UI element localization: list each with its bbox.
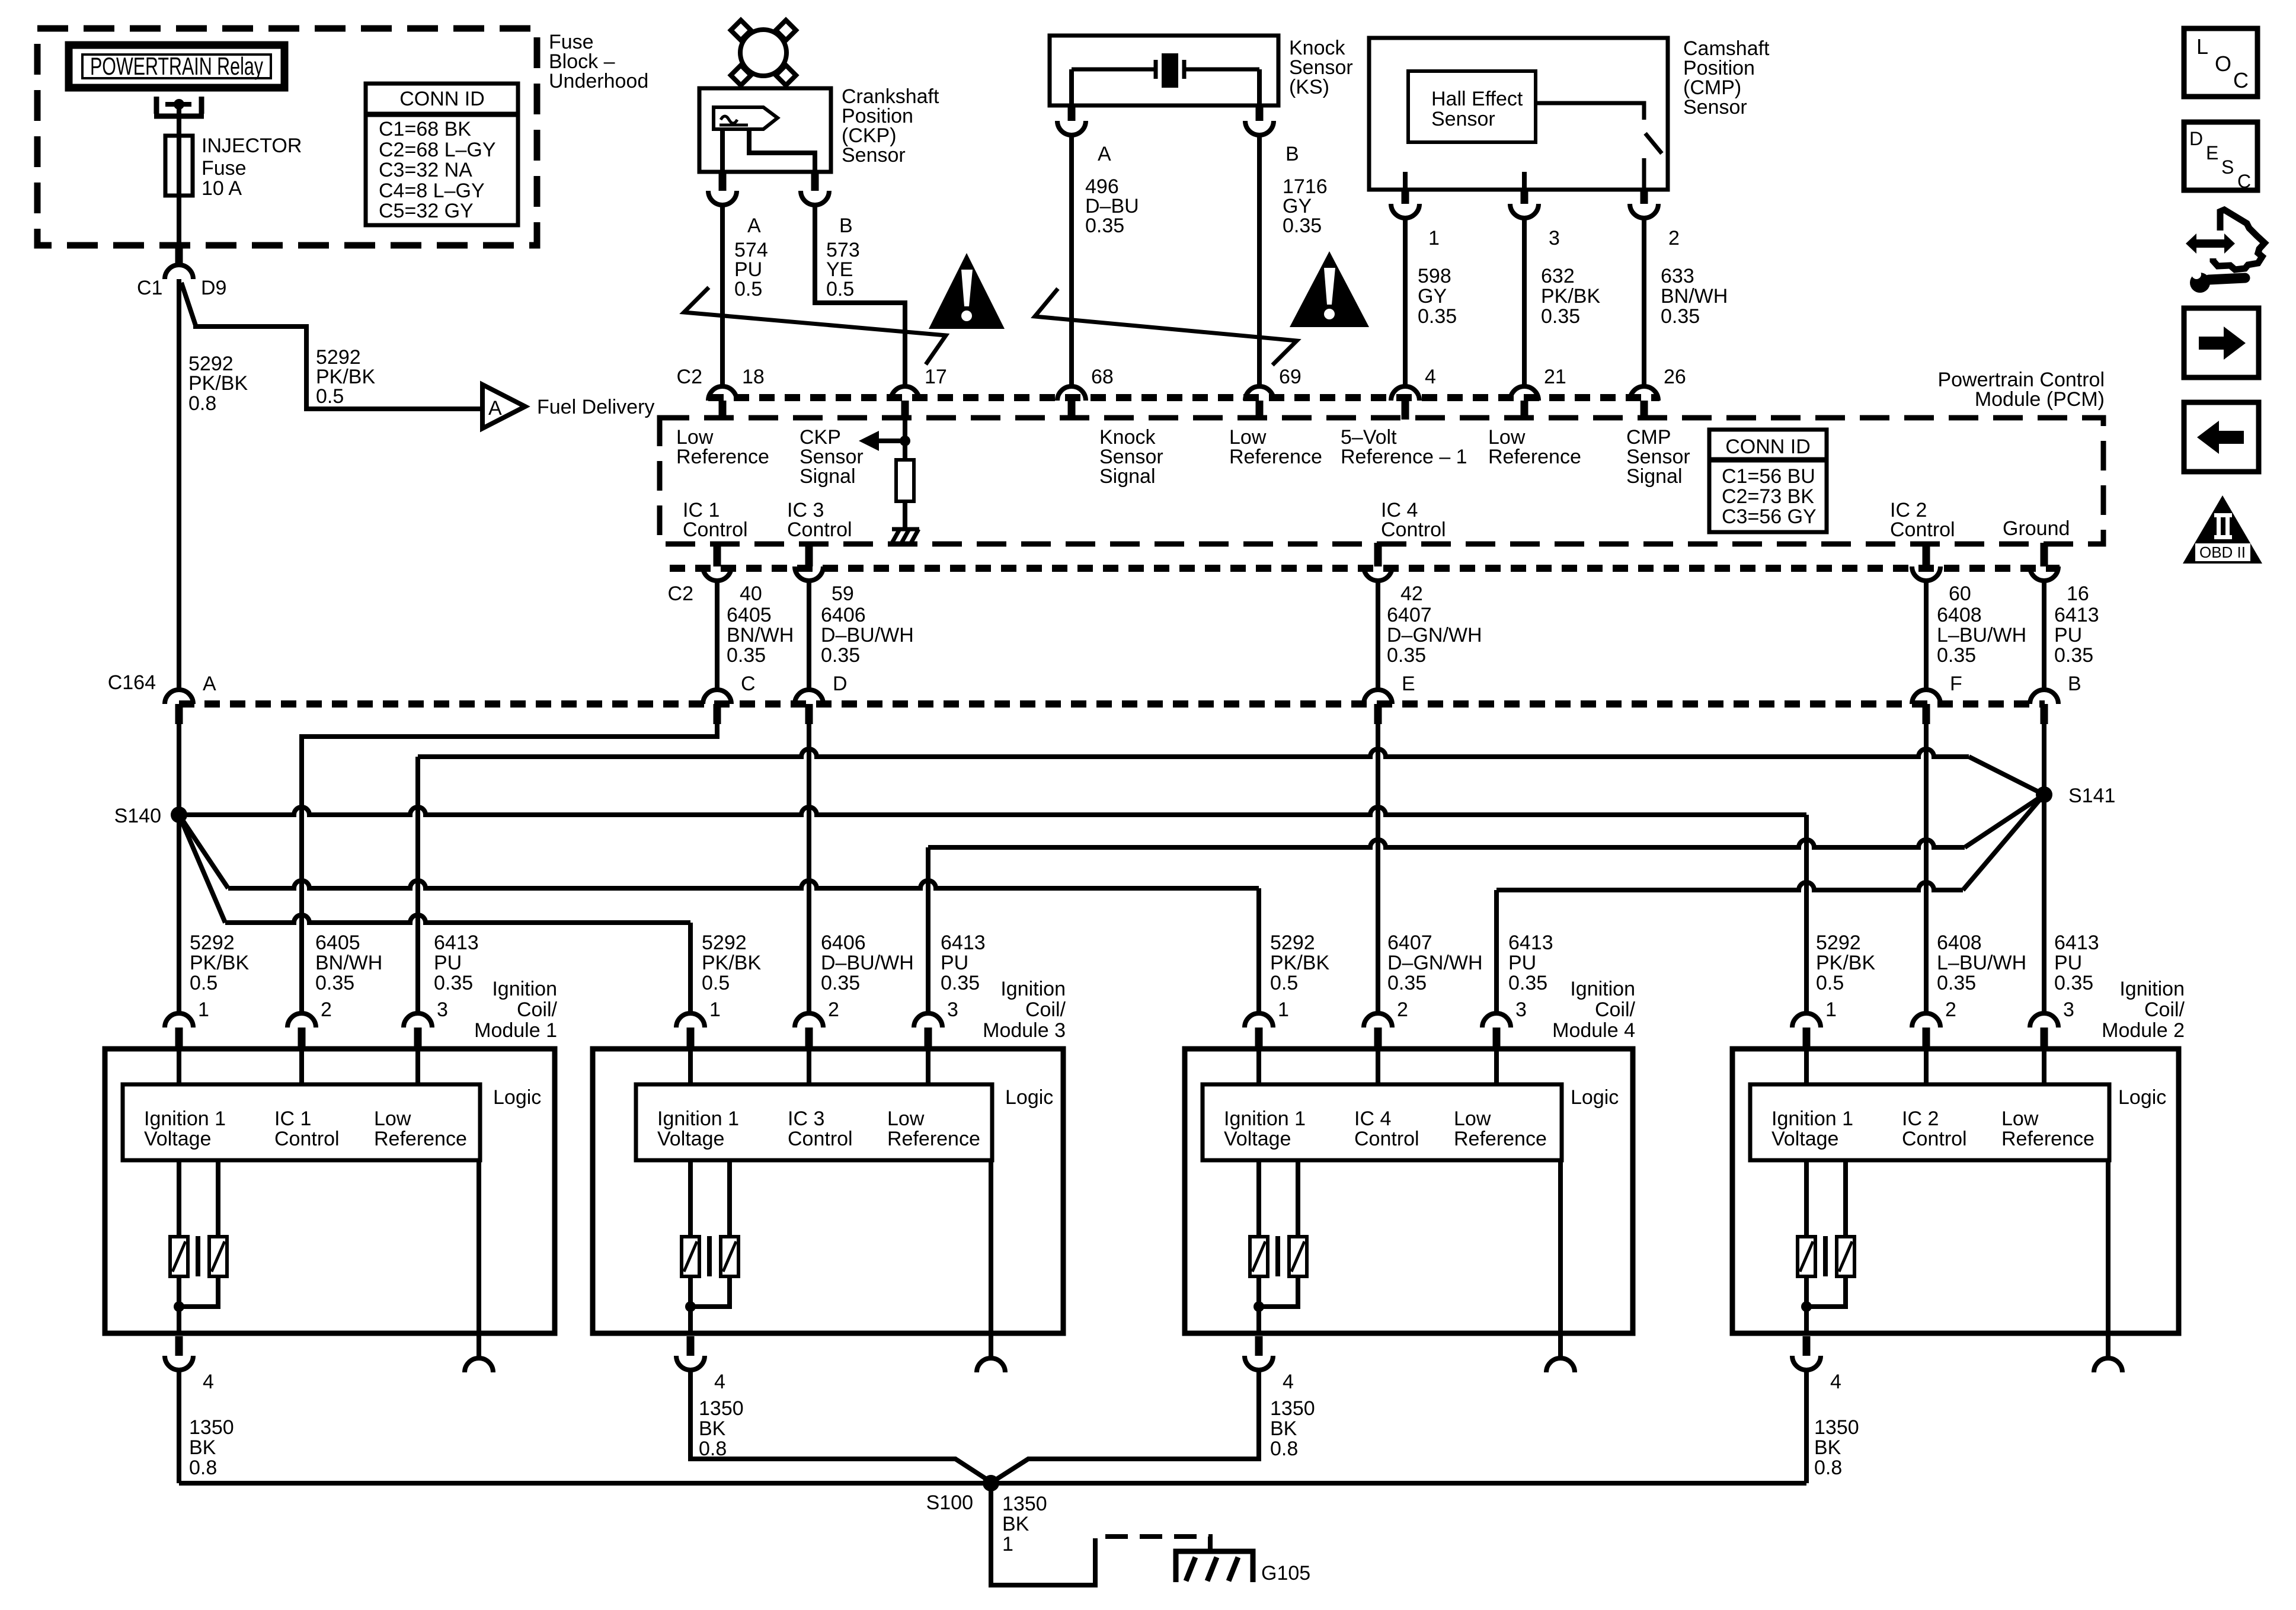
svg-text:Fuse: Fuse: [202, 157, 247, 180]
svg-text:0.35: 0.35: [1508, 972, 1547, 994]
svg-text:0.35: 0.35: [821, 644, 860, 667]
svg-text:C: C: [2237, 171, 2251, 192]
svg-text:Sensor: Sensor: [1431, 108, 1495, 130]
module 3 coil junction node: [685, 1301, 696, 1312]
svg-text:A: A: [1098, 143, 1111, 165]
module 3 pin 2 connector: [795, 1013, 823, 1028]
svg-text:Module 2: Module 2: [2102, 1019, 2185, 1042]
svg-text:C3=56 GY: C3=56 GY: [1722, 505, 1817, 528]
module 2 low reference wire: [2106, 1160, 2110, 1333]
module 1 low reference pin (unconnected): [465, 1358, 493, 1372]
module 1 coil core: [196, 1236, 200, 1276]
module 3 wire secondary return: [690, 1276, 730, 1307]
relay K1 POWERTRAIN Relay box: [69, 45, 284, 88]
svg-text:E: E: [2206, 142, 2218, 164]
module 3 pin 4 connector: [676, 1356, 705, 1370]
svg-text:BN/WH: BN/WH: [1661, 285, 1728, 308]
svg-text:0.35: 0.35: [1085, 215, 1124, 237]
connector C2 pin 42: [1364, 566, 1392, 581]
svg-text:6407: 6407: [1387, 604, 1432, 626]
wire 6408 pin60 to C164-F: [1924, 581, 1929, 690]
wire 6413 branch S141 to module3 pin3: [928, 840, 1965, 847]
arrow CKP sensor signal: [878, 438, 905, 443]
connector C2 pin 59 stub: [805, 543, 813, 566]
fuse block - underhood dashed box: [37, 28, 537, 245]
module 2 coil primary winding: [1798, 1237, 1815, 1276]
svg-text:0.35: 0.35: [1418, 305, 1457, 328]
svg-text:Ground: Ground: [2003, 517, 2070, 540]
module 1 coil junction node: [174, 1301, 184, 1312]
svg-text:18: 18: [742, 366, 765, 388]
module 2 pin 4 connector: [1792, 1356, 1821, 1370]
svg-text:BK: BK: [189, 1436, 216, 1459]
fuse block CONN ID table: [366, 84, 518, 225]
twisted pair symbol KS wires: [1035, 289, 1297, 365]
svg-text:0.5: 0.5: [702, 972, 730, 994]
hall effect sensor box: [1408, 71, 1536, 142]
module 4 low reference wire: [1558, 1160, 1563, 1333]
svg-text:IC 4: IC 4: [1354, 1108, 1391, 1130]
wire 1350 bus horizontal: [179, 1481, 1806, 1486]
svg-text:0.35: 0.35: [2054, 972, 2093, 994]
wire 633 BN/WH 0.35: [1642, 218, 1646, 386]
svg-text:Reference: Reference: [1488, 446, 1581, 468]
wire relay to fuse: [177, 107, 181, 136]
twisted pair symbol CKP wires: [684, 287, 946, 364]
module 2 wire logic to coil primary: [1804, 1160, 1809, 1237]
module 3 wire logic to coil primary: [688, 1160, 693, 1237]
CKP sensor element symbol: [714, 107, 778, 129]
module 2 wire secondary return: [1806, 1276, 1846, 1307]
svg-text:1: 1: [198, 998, 209, 1021]
wire 632 PK/BK 0.35: [1522, 218, 1527, 386]
icon forward arrow box: [2184, 308, 2259, 377]
svg-text:Control: Control: [274, 1128, 340, 1150]
module 1 wire secondary return: [179, 1276, 218, 1307]
svg-text:C2=68 L–GY: C2=68 L–GY: [379, 139, 496, 161]
svg-text:C2: C2: [668, 582, 693, 605]
CKP pin B stub: [811, 171, 819, 191]
connector C1 pin D9 stub: [175, 248, 183, 265]
svg-text:0.35: 0.35: [1937, 644, 1976, 667]
connector C164 pin C: [703, 690, 731, 704]
svg-text:10 A: 10 A: [202, 177, 242, 200]
wire 5292 PK/BK 0.8 main vertical: [177, 279, 181, 690]
svg-text:Low: Low: [2001, 1108, 2039, 1130]
svg-text:2: 2: [828, 998, 839, 1021]
svg-text:0.35: 0.35: [1387, 644, 1426, 667]
wire 6407 E to module4 pin2: [1376, 724, 1380, 1013]
CMP pin 1 wire internal: [1403, 172, 1408, 190]
warning triangle 1: [929, 253, 1005, 329]
svg-text:0.35: 0.35: [315, 972, 354, 994]
module 4 coil primary winding: [1250, 1237, 1268, 1276]
svg-text:Control: Control: [1890, 518, 1955, 541]
svg-text:BK: BK: [1270, 1417, 1297, 1440]
svg-text:C1=68 BK: C1=68 BK: [379, 118, 471, 140]
svg-text:Logic: Logic: [1571, 1086, 1619, 1109]
svg-text:3: 3: [1549, 227, 1560, 249]
svg-text:PK/BK: PK/BK: [1270, 952, 1329, 974]
svg-text:Signal: Signal: [1099, 465, 1156, 488]
svg-text:6413: 6413: [2054, 932, 2099, 954]
svg-text:Low: Low: [1454, 1108, 1491, 1130]
wire 1350 module3 to S100: [690, 1370, 991, 1482]
svg-text:GY: GY: [1418, 285, 1447, 308]
splice S141: [2036, 786, 2052, 803]
icon OBD II triangle: [2183, 495, 2262, 564]
svg-text:IC 2: IC 2: [1902, 1108, 1939, 1130]
connector C164 pin A: [165, 690, 193, 704]
KS piezo element symbol: [1072, 68, 1156, 72]
CMP pin 1 stub: [1402, 188, 1409, 204]
svg-text:Coil/: Coil/: [1595, 998, 1636, 1021]
module 3 coil secondary winding: [721, 1237, 738, 1276]
module 3 low reference pin (unconnected): [977, 1358, 1005, 1372]
svg-text:0.5: 0.5: [826, 278, 854, 300]
svg-text:PK/BK: PK/BK: [1541, 285, 1600, 308]
connector C2 pin 18: [708, 386, 737, 401]
wire 1716 GY 0.35: [1257, 135, 1262, 386]
wire 5292 branch S140 to module4 pin1: [179, 815, 228, 888]
svg-text:D: D: [2189, 128, 2203, 149]
svg-text:Underhood: Underhood: [549, 70, 648, 92]
svg-text:Low: Low: [374, 1108, 411, 1130]
svg-text:L–BU/WH: L–BU/WH: [1937, 624, 2026, 646]
wire CKP pin B internal: [749, 129, 815, 172]
svg-text:0.35: 0.35: [1661, 305, 1700, 328]
svg-text:BK: BK: [699, 1417, 726, 1440]
svg-text:Reference – 1: Reference – 1: [1341, 446, 1467, 468]
svg-text:0.35: 0.35: [1387, 972, 1427, 994]
wire 6406 D to module3 pin2: [807, 724, 811, 1013]
module 1 pin 4 stub: [175, 1336, 183, 1356]
module 4 coil core: [1275, 1236, 1280, 1276]
svg-text:4: 4: [714, 1371, 725, 1393]
module 2 coil junction node: [1801, 1301, 1812, 1312]
svg-text:O: O: [2215, 52, 2231, 76]
wire resistor to ground: [903, 501, 907, 529]
module 2 outer box: [1732, 1049, 2179, 1333]
svg-text:Ignition 1: Ignition 1: [657, 1108, 739, 1130]
svg-text:Voltage: Voltage: [144, 1128, 211, 1150]
wire 6413 branch S141 to module1 pin3: [418, 749, 1969, 757]
icon DESC box: [2184, 122, 2257, 190]
svg-text:6406: 6406: [821, 932, 866, 954]
wire 496 D-BU 0.35: [1069, 135, 1074, 386]
svg-text:Control: Control: [1354, 1128, 1419, 1150]
svg-text:1350: 1350: [1270, 1397, 1315, 1420]
svg-text:Ignition 1: Ignition 1: [1224, 1108, 1306, 1130]
connector C2 pin 60: [1912, 566, 1940, 581]
svg-text:PU: PU: [1508, 952, 1536, 974]
module 1 outer box: [105, 1049, 555, 1333]
connector row C2 (PCM bottom): [670, 565, 2060, 572]
svg-text:3: 3: [2063, 998, 2074, 1021]
connector C2 pin 26: [1630, 386, 1658, 401]
svg-text:IC 1: IC 1: [274, 1108, 311, 1130]
svg-text:68: 68: [1091, 366, 1114, 388]
svg-text:BN/WH: BN/WH: [315, 952, 382, 974]
wire 5292 A column through S140: [177, 724, 181, 1013]
module 1 pin 3 connector: [404, 1013, 432, 1028]
PCM dashed box: [660, 418, 2103, 544]
svg-text:3: 3: [1515, 998, 1527, 1021]
module 2 coil core: [1823, 1236, 1828, 1276]
svg-text:Signal: Signal: [800, 465, 856, 488]
connector C2 pin 16 stub: [2041, 543, 2048, 566]
connector C2 pin 40 stub: [714, 543, 721, 566]
module 1 coil secondary winding: [209, 1237, 227, 1276]
svg-text:6413: 6413: [1508, 932, 1553, 954]
svg-text:1: 1: [1278, 998, 1289, 1021]
svg-text:0.35: 0.35: [727, 644, 766, 667]
svg-text:C3=32 NA: C3=32 NA: [379, 159, 472, 181]
module 4 wire logic to coil secondary: [1296, 1160, 1300, 1237]
wire 574 PU 0.5: [720, 205, 725, 386]
svg-text:B: B: [1285, 143, 1299, 165]
connector C164 pin F: [1912, 690, 1940, 704]
icon back arrow box: [2184, 402, 2259, 472]
icon diagnostic wrench with arrows: [2186, 233, 2235, 254]
svg-text:Ignition: Ignition: [1570, 978, 1635, 1000]
svg-text:6408: 6408: [1937, 932, 1982, 954]
svg-text:Fuel Delivery: Fuel Delivery: [537, 396, 654, 418]
svg-text:D–GN/WH: D–GN/WH: [1387, 952, 1483, 974]
svg-text:Reference: Reference: [2001, 1128, 2094, 1150]
svg-text:40: 40: [740, 582, 762, 605]
module 4 pin 4 connector: [1245, 1356, 1273, 1370]
svg-text:0.35: 0.35: [1283, 215, 1322, 237]
svg-text:D–GN/WH: D–GN/WH: [1387, 624, 1482, 646]
svg-text:PK/BK: PK/BK: [702, 952, 761, 974]
svg-text:Control: Control: [787, 518, 852, 541]
svg-text:L: L: [2196, 34, 2208, 59]
module 1 wire logic to coil secondary: [216, 1160, 220, 1237]
svg-text:0.35: 0.35: [821, 972, 860, 994]
svg-text:BK: BK: [1814, 1436, 1841, 1459]
svg-text:Control: Control: [1381, 518, 1446, 541]
wire 6407 pin42 to C164-E: [1376, 581, 1380, 690]
svg-text:0.5: 0.5: [190, 972, 218, 994]
svg-text:2: 2: [321, 998, 332, 1021]
svg-text:PU: PU: [434, 952, 462, 974]
wire 1350 module2 down: [1804, 1370, 1809, 1483]
connector C2 pin 60 stub: [1923, 543, 1930, 566]
module 1 wire coil to pin 4: [177, 1276, 181, 1333]
module 4 outer box: [1185, 1049, 1633, 1333]
svg-text:C: C: [741, 673, 756, 695]
svg-text:Reference: Reference: [1454, 1128, 1547, 1150]
wire 6405 pin40 to C164-C: [715, 581, 720, 690]
connector C2 pin 21: [1510, 386, 1539, 401]
wire 6406 pin59 to C164-D: [807, 581, 811, 690]
connector C2 pin 40: [703, 566, 731, 581]
svg-text:(KS): (KS): [1289, 76, 1329, 98]
module 1 wire logic to coil primary: [177, 1160, 181, 1237]
resistor R1 (PCM internal): [896, 460, 914, 501]
svg-text:1: 1: [709, 998, 721, 1021]
svg-text:1350: 1350: [189, 1416, 234, 1439]
connector row C2 (PCM top): [708, 394, 1659, 401]
KS pin B connector: [1245, 121, 1274, 135]
module 4 pin 3 connector: [1482, 1013, 1511, 1028]
module 3 pin 1 connector: [676, 1013, 705, 1028]
CMP sensor box: [1369, 38, 1668, 190]
svg-text:Module (PCM): Module (PCM): [1975, 388, 2105, 411]
svg-text:1: 1: [1428, 227, 1440, 249]
module 2 pin 3 connector: [2030, 1013, 2058, 1028]
module 2 logic box: [1750, 1084, 2109, 1160]
svg-text:BK: BK: [1002, 1513, 1029, 1535]
module 4 coil secondary winding: [1289, 1237, 1307, 1276]
wire 6405 C to module1 pin2: [302, 724, 717, 1013]
wire KS pin A internal: [1069, 69, 1074, 105]
svg-text:C2: C2: [677, 366, 702, 388]
module 1 coil primary winding: [170, 1237, 188, 1276]
svg-text:42: 42: [1400, 582, 1423, 605]
svg-text:5292: 5292: [190, 932, 235, 954]
module 2 coil secondary winding: [1837, 1237, 1854, 1276]
svg-text:59: 59: [832, 582, 854, 605]
connector C2 pin 68: [1057, 386, 1086, 401]
svg-text:S100: S100: [926, 1491, 973, 1514]
svg-text:C: C: [2233, 68, 2249, 92]
svg-text:Module 4: Module 4: [1552, 1019, 1635, 1042]
connector C164 pin E: [1364, 690, 1392, 704]
svg-text:D9: D9: [201, 277, 226, 299]
module 2 wire coil to pin 4: [1804, 1276, 1809, 1333]
svg-text:633: 633: [1661, 265, 1694, 287]
svg-text:Low: Low: [887, 1108, 925, 1130]
dashed wire to ground G105: [1095, 1537, 1210, 1561]
connector C164 pin D: [795, 690, 823, 704]
module 4 coil junction node: [1253, 1301, 1264, 1312]
module 4 wire logic to coil primary: [1256, 1160, 1261, 1237]
CKP pin B connector: [801, 191, 829, 205]
svg-text:Voltage: Voltage: [1224, 1128, 1291, 1150]
svg-text:69: 69: [1279, 366, 1302, 388]
svg-text:BN/WH: BN/WH: [727, 624, 794, 646]
connector C2 pin 16: [2030, 566, 2058, 581]
wire 1350 module1 down: [177, 1370, 181, 1483]
svg-text:6413: 6413: [434, 932, 479, 954]
connector C1 pin D9: [165, 265, 193, 279]
wire 5292 branch S140 to module2 pin1: [179, 807, 1806, 815]
fuse F1 INJECTOR 10A: [165, 136, 193, 196]
svg-text:C4=8 L–GY: C4=8 L–GY: [379, 180, 485, 202]
svg-text:Logic: Logic: [1005, 1086, 1053, 1109]
svg-text:PU: PU: [941, 952, 968, 974]
svg-text:1350: 1350: [1814, 1416, 1859, 1439]
module 3 wire logic to coil secondary: [727, 1160, 732, 1237]
svg-text:Ignition: Ignition: [2119, 978, 2185, 1000]
svg-text:1: 1: [1825, 998, 1837, 1021]
node CKP signal junction: [900, 436, 910, 446]
svg-text:C1=56 BU: C1=56 BU: [1722, 465, 1815, 488]
svg-text:6407: 6407: [1387, 932, 1432, 954]
connector C2 pin 4: [1391, 386, 1419, 401]
svg-text:0.35: 0.35: [1937, 972, 1976, 994]
connector row C164: [179, 700, 2045, 708]
svg-text:Logic: Logic: [2118, 1086, 2166, 1109]
svg-text:16: 16: [2067, 582, 2089, 605]
wire 6413 B column through S141: [2042, 724, 2046, 1013]
svg-text:Sensor: Sensor: [1683, 96, 1747, 119]
svg-text:26: 26: [1664, 366, 1686, 388]
svg-text:Ignition 1: Ignition 1: [1771, 1108, 1853, 1130]
module 2 pin 2 connector: [1912, 1013, 1940, 1028]
wire pin 17 internal: [903, 418, 907, 441]
svg-text:0.35: 0.35: [941, 972, 980, 994]
svg-text:POWERTRAIN Relay: POWERTRAIN Relay: [90, 52, 263, 80]
module 3 low reference wire: [989, 1160, 993, 1333]
svg-text:Module 1: Module 1: [474, 1019, 557, 1042]
CMP pin 3 stub: [1521, 188, 1528, 204]
PCM CONN ID table: [1709, 430, 1827, 532]
CKP sensor mounting circle symbol: [740, 30, 786, 76]
CMP pin 3 wire internal: [1522, 172, 1527, 190]
CKP sensor box: [699, 88, 831, 172]
svg-text:Voltage: Voltage: [657, 1128, 724, 1150]
svg-text:5292: 5292: [1270, 932, 1315, 954]
svg-text:D–BU/WH: D–BU/WH: [821, 952, 914, 974]
module 2 low reference pin (unconnected): [2094, 1358, 2122, 1372]
ground (PCM internal signal ground): [892, 527, 919, 532]
connector C2 pin 42 stub: [1374, 543, 1382, 566]
svg-text:6405: 6405: [315, 932, 360, 954]
svg-text:4: 4: [203, 1371, 214, 1393]
svg-text:6406: 6406: [821, 604, 866, 626]
KS pin A stub: [1068, 104, 1076, 121]
svg-text:PK/BK: PK/BK: [188, 372, 248, 395]
svg-text:0.8: 0.8: [1270, 1438, 1298, 1460]
svg-text:INJECTOR: INJECTOR: [202, 135, 302, 157]
svg-text:A: A: [747, 215, 761, 237]
svg-text:C1: C1: [137, 277, 162, 299]
svg-text:2: 2: [1945, 998, 1956, 1021]
svg-text:S: S: [2221, 156, 2234, 178]
module 1 pin 2 connector: [287, 1013, 316, 1028]
relay contact symbol: [154, 97, 204, 116]
off-page arrow A to Fuel Delivery: [482, 385, 525, 428]
module 1 logic box: [123, 1084, 480, 1160]
svg-text:F: F: [1950, 673, 1962, 695]
svg-text:21: 21: [1544, 366, 1566, 388]
module 4 pin 4 stub: [1255, 1336, 1263, 1356]
wire 6413 pin16 to C164-B: [2042, 581, 2046, 690]
svg-text:PK/BK: PK/BK: [190, 952, 249, 974]
svg-text:B: B: [2068, 673, 2081, 695]
module 1 pin 4 connector: [165, 1356, 193, 1370]
svg-text:2: 2: [1397, 998, 1408, 1021]
svg-text:4: 4: [1283, 1371, 1294, 1393]
svg-text:CONN ID: CONN ID: [399, 88, 485, 110]
svg-text:0.8: 0.8: [189, 1457, 217, 1479]
svg-text:S141: S141: [2068, 785, 2115, 807]
svg-text:0.8: 0.8: [1814, 1457, 1842, 1479]
svg-text:1350: 1350: [699, 1397, 744, 1420]
module 3 pin 4 stub: [687, 1336, 695, 1356]
svg-text:Module 3: Module 3: [983, 1019, 1066, 1042]
svg-text:Reference: Reference: [676, 446, 769, 468]
svg-text:6405: 6405: [727, 604, 772, 626]
wire 5292 branch S140 to module3 pin1: [179, 815, 225, 923]
connector C2 pin 69: [1245, 386, 1274, 401]
svg-text:60: 60: [1949, 582, 1971, 605]
module 4 logic box: [1203, 1084, 1562, 1160]
svg-text:C5=32 GY: C5=32 GY: [379, 200, 474, 222]
